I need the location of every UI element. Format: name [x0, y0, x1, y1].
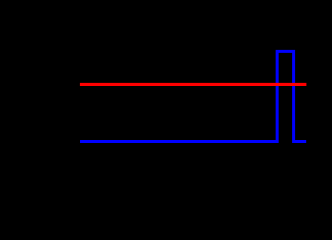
red threshold line	[80, 83, 307, 86]
blue signal trace (pulse waveform)	[80, 51, 306, 141]
